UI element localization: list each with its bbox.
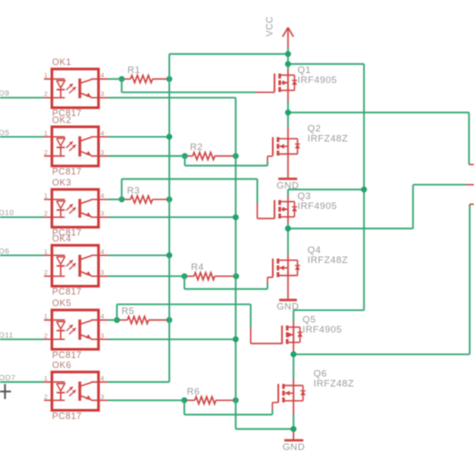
svg-text:1: 1 [44,73,48,80]
svg-text:GND: GND [283,442,305,453]
svg-text:R3: R3 [127,185,140,196]
svg-text:1: 1 [44,314,48,321]
svg-text:1: 1 [44,130,48,137]
svg-text:GND: GND [277,302,299,313]
svg-text:IRF4905: IRF4905 [298,75,338,86]
svg-text:3: 3 [101,394,105,401]
svg-text:2: 2 [44,150,48,157]
svg-text:R2: R2 [190,142,203,153]
svg-text:D10: D10 [0,208,14,217]
svg-text:D5: D5 [0,128,10,137]
svg-text:D11: D11 [0,330,14,339]
svg-text:R5: R5 [122,306,135,317]
svg-text:4: 4 [101,193,105,200]
svg-text:R6: R6 [187,386,200,397]
svg-text:3: 3 [101,91,105,98]
svg-text:IRFZ48Z: IRFZ48Z [314,379,355,390]
svg-text:D9: D9 [0,89,10,98]
svg-text:IRF4905: IRF4905 [298,201,338,212]
svg-text:OK1: OK1 [52,57,71,67]
svg-text:OK3: OK3 [52,177,71,187]
svg-text:PC817: PC817 [52,411,82,421]
svg-text:IRFZ48Z: IRFZ48Z [308,255,349,266]
svg-text:IRFZ48Z: IRFZ48Z [308,134,349,145]
svg-text:1: 1 [44,376,48,383]
svg-text:OK4: OK4 [52,233,71,243]
svg-text:PC817: PC817 [52,287,82,297]
svg-text:4: 4 [101,314,105,321]
svg-text:2: 2 [44,333,48,340]
svg-text:4: 4 [101,130,105,137]
svg-text:2: 2 [44,91,48,98]
svg-text:PC817: PC817 [52,350,82,360]
svg-text:VCC: VCC [265,16,275,36]
svg-text:PC817: PC817 [52,167,82,177]
svg-text:4: 4 [101,376,105,383]
svg-text:D6: D6 [0,246,10,255]
svg-text:4: 4 [101,249,105,256]
svg-text:3: 3 [101,211,105,218]
svg-text:R1: R1 [128,65,141,76]
svg-text:OK5: OK5 [52,298,71,308]
svg-text:2: 2 [44,394,48,401]
svg-text:R4: R4 [191,262,204,273]
svg-text:OK2: OK2 [52,115,71,125]
svg-text:1: 1 [44,249,48,256]
svg-text:4: 4 [101,73,105,80]
svg-text:1: 1 [44,193,48,200]
svg-text:OK6: OK6 [52,360,71,370]
svg-text:3: 3 [101,150,105,157]
svg-text:IRF4905: IRF4905 [303,325,343,336]
svg-text:3: 3 [101,333,105,340]
svg-text:2: 2 [44,270,48,277]
svg-text:2: 2 [44,211,48,218]
svg-text:3: 3 [101,270,105,277]
svg-text:OD7: OD7 [0,373,16,382]
